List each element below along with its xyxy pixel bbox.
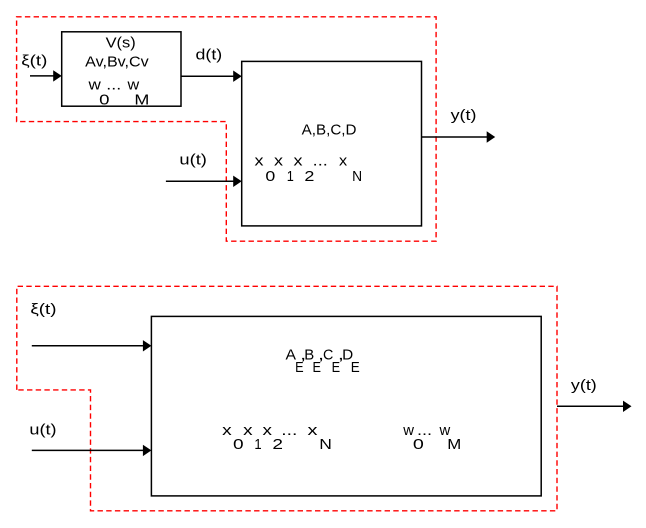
svg-text:y(t): y(t) bbox=[451, 107, 477, 124]
svg-text:0: 0 bbox=[413, 436, 424, 453]
svg-text:A,B,C,D: A,B,C,D bbox=[302, 121, 357, 138]
svg-text:E: E bbox=[295, 359, 304, 376]
svg-text:y(t): y(t) bbox=[571, 377, 597, 394]
svg-text:u(t): u(t) bbox=[29, 422, 56, 439]
svg-text:0: 0 bbox=[99, 91, 109, 108]
svg-text:ξ(t): ξ(t) bbox=[30, 301, 56, 318]
svg-text:1: 1 bbox=[254, 436, 261, 453]
svg-text:M: M bbox=[447, 436, 461, 453]
svg-text:2: 2 bbox=[272, 436, 283, 453]
svg-text:N: N bbox=[319, 436, 332, 453]
svg-text:x: x bbox=[308, 422, 319, 439]
svg-text:E: E bbox=[351, 359, 360, 376]
svg-text:x: x bbox=[274, 152, 284, 169]
svg-text:u(t): u(t) bbox=[179, 151, 207, 168]
svg-text:x: x bbox=[263, 422, 273, 439]
svg-text:E: E bbox=[312, 359, 321, 376]
svg-text:M: M bbox=[134, 91, 149, 108]
svg-text:x: x bbox=[222, 422, 232, 439]
svg-text:E: E bbox=[332, 359, 341, 376]
svg-text:V(s): V(s) bbox=[106, 35, 136, 52]
svg-text:d(t): d(t) bbox=[196, 46, 223, 63]
svg-text:x: x bbox=[255, 152, 265, 169]
svg-text:N: N bbox=[352, 168, 362, 185]
svg-text:Av,Bv,Cv: Av,Bv,Cv bbox=[85, 54, 149, 71]
svg-text:x: x bbox=[243, 422, 253, 439]
svg-text:x: x bbox=[294, 152, 304, 169]
svg-text:1: 1 bbox=[287, 168, 294, 185]
svg-text:ξ(t): ξ(t) bbox=[21, 53, 47, 70]
svg-text:x: x bbox=[339, 152, 348, 169]
svg-text:0: 0 bbox=[233, 436, 244, 453]
svg-text:...: ... bbox=[281, 422, 297, 439]
svg-text:0: 0 bbox=[265, 168, 275, 185]
svg-text:2: 2 bbox=[304, 168, 314, 185]
svg-text:...: ... bbox=[313, 152, 328, 169]
